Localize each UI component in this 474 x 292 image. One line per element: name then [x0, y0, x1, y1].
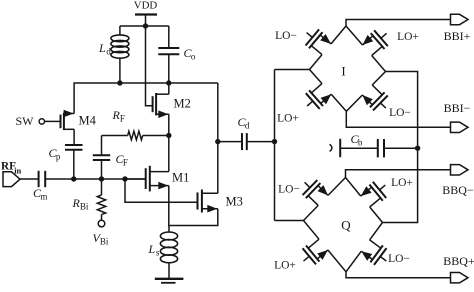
- svg-text:LO+: LO+: [391, 177, 413, 189]
- svg-text:Q: Q: [341, 218, 351, 233]
- node Cd-left: [215, 139, 220, 144]
- svg-text:BBI+: BBI+: [444, 29, 471, 43]
- label LO+ I-bottomleft: [277, 113, 299, 125]
- svg-text:M1: M1: [172, 171, 189, 185]
- svg-text:LO−: LO−: [278, 184, 300, 196]
- mixer I switch LO- bottom-right: [346, 72, 388, 112]
- svg-text:F: F: [123, 158, 128, 168]
- label Cp: [49, 146, 61, 162]
- wire BBI-: [346, 111, 450, 127]
- label Cb: [351, 132, 363, 148]
- node Ld-rail: [117, 80, 122, 85]
- svg-text:LO+: LO+: [277, 113, 299, 125]
- label LO+ Q-bottomleft: [274, 260, 296, 272]
- label LO+ Q-topright: [391, 177, 413, 189]
- svg-text:F: F: [120, 114, 125, 124]
- svg-text:BBQ+: BBQ+: [443, 254, 474, 268]
- label BBQ-: [442, 183, 474, 197]
- mixer Q switch LO+ bottom-left: [303, 221, 346, 272]
- resistor RF: [102, 131, 169, 140]
- inductor Ls: [160, 226, 177, 279]
- transistor M4: [45, 110, 75, 130]
- label Co: [184, 46, 196, 62]
- wire BBQ+: [346, 272, 451, 278]
- node Cp-row: [71, 176, 76, 181]
- node Co-rail: [166, 80, 171, 85]
- wire M2drain: [168, 83, 170, 94]
- wire M2src-M1drain: [168, 114, 170, 171]
- label CF: [116, 152, 128, 168]
- node RF-M2src: [166, 133, 171, 138]
- svg-text:d: d: [106, 47, 111, 57]
- capacitor CF: [93, 136, 110, 180]
- label LO+ I-topright: [397, 31, 419, 43]
- label RBi: [72, 196, 89, 212]
- node Cb-common: [415, 146, 420, 151]
- port BBQ+: [451, 273, 469, 283]
- svg-text:LO+: LO+: [397, 31, 419, 43]
- label M3: [226, 195, 243, 209]
- svg-text:L: L: [148, 242, 156, 256]
- inductor Ld: [111, 26, 129, 83]
- terminal SW: [39, 119, 44, 124]
- terminal VBi: [98, 220, 105, 227]
- svg-text:LO+: LO+: [274, 260, 296, 272]
- capacitor Cm: [20, 171, 74, 187]
- mixer Q switch LO- top-left: [303, 178, 346, 221]
- label BBQ+: [443, 254, 474, 268]
- svg-text:VDD: VDD: [134, 0, 158, 12]
- label LO- Q-topleft: [278, 184, 300, 196]
- svg-text:d: d: [245, 121, 250, 131]
- node VDD: [120, 23, 169, 28]
- svg-text:SW: SW: [16, 114, 35, 128]
- port RFin: [3, 172, 20, 187]
- mixer I switch LO- top-left: [306, 26, 346, 70]
- mixer I switch LO+ top-right: [346, 26, 388, 72]
- svg-text:o: o: [191, 52, 196, 62]
- wire rail-Cd: [217, 83, 219, 193]
- label M4: [79, 114, 97, 128]
- svg-text:Bi: Bi: [100, 237, 109, 247]
- mixer Q switch LO+ top-right: [346, 178, 387, 223]
- wire M3 gate: [125, 179, 198, 202]
- label LO- Q-bottomright: [388, 253, 410, 265]
- label M2: [174, 97, 191, 111]
- wire Q-left: [275, 220, 304, 222]
- port BBQ-: [451, 165, 469, 175]
- label RF-res: [112, 108, 125, 124]
- node CF-row: [99, 176, 104, 181]
- label I: [341, 64, 345, 79]
- label Cm: [33, 186, 47, 202]
- svg-text:LO−: LO−: [275, 30, 297, 42]
- ground: [155, 279, 184, 283]
- label LO- I-bottomright: [389, 107, 411, 119]
- transistor M1: [125, 166, 169, 192]
- label SW: [16, 114, 35, 128]
- svg-text:Bi: Bi: [80, 202, 89, 212]
- wire I-left: [275, 69, 310, 71]
- svg-text:M3: M3: [226, 195, 243, 209]
- label BBI-: [444, 101, 471, 115]
- svg-text:p: p: [56, 152, 61, 162]
- label M1: [172, 171, 189, 185]
- label RFin: [1, 161, 22, 176]
- power VDD: [134, 0, 158, 26]
- label VBi: [93, 231, 109, 247]
- svg-text:LO−: LO−: [389, 107, 411, 119]
- svg-text:s: s: [156, 248, 160, 258]
- svg-text:in: in: [14, 166, 21, 176]
- capacitor Cb: [330, 139, 418, 158]
- capacitor Cp: [65, 129, 83, 179]
- svg-text:L: L: [98, 41, 106, 55]
- label Ls: [148, 242, 160, 258]
- mixer I switch LO+ bottom-left: [306, 70, 347, 112]
- wire source line: [169, 186, 218, 226]
- svg-text:BBQ−: BBQ−: [442, 183, 474, 197]
- svg-text:b: b: [358, 138, 363, 148]
- label Ld: [98, 41, 111, 57]
- svg-text:M2: M2: [174, 97, 191, 111]
- wire drain rail: [74, 83, 218, 114]
- wire M2 gate: [146, 26, 153, 106]
- port BBI+: [451, 14, 469, 24]
- wire I-right: [383, 72, 418, 223]
- label Q: [341, 218, 351, 233]
- label Cd: [238, 115, 250, 131]
- transistor M3: [198, 190, 218, 213]
- resistor RBi: [97, 179, 105, 220]
- label LO- I-topleft: [275, 30, 297, 42]
- wire BBQ-: [346, 170, 451, 178]
- port BBI-: [451, 122, 469, 132]
- wire input row: [74, 178, 146, 180]
- svg-text:BBI−: BBI−: [444, 101, 471, 115]
- transistor M2: [153, 93, 169, 118]
- label BBI+: [444, 29, 471, 43]
- capacitor Cd: [218, 133, 275, 150]
- node Cd-right: [272, 139, 277, 144]
- wire RF-to-mixers: [274, 70, 276, 221]
- mixer Q switch LO- bottom-right: [346, 223, 387, 272]
- node M3gate-row: [122, 176, 127, 181]
- svg-text:LO−: LO−: [388, 253, 410, 265]
- svg-text:M4: M4: [79, 114, 97, 128]
- svg-text:m: m: [40, 192, 47, 202]
- wire BBI+: [346, 20, 451, 27]
- capacitor Co: [158, 26, 179, 83]
- svg-text:I: I: [341, 64, 345, 79]
